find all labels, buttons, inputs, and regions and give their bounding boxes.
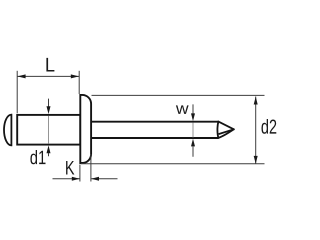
dimension K: left tail line <box>53 178 80 180</box>
dimension d1: lower arrow tail <box>48 153 50 156</box>
dimension d2: label <box>262 119 277 134</box>
dimension d2: dimension line <box>255 97 257 164</box>
mandrel head (blind-side bump) <box>4 115 11 146</box>
dimension w: upper arrowhead (down) <box>191 113 195 121</box>
dimension d2: extension line bottom <box>81 163 265 165</box>
dimension K: extension line left <box>79 165 81 182</box>
rivet body (tube) <box>17 115 80 145</box>
dimension w: line through stem <box>192 123 194 138</box>
dimension L: extension line right <box>78 71 80 94</box>
dimension K: left arrowhead (right-pointing) <box>72 177 80 181</box>
dimension d1: line through body <box>48 116 50 144</box>
dimension L: right arrowhead <box>71 74 79 78</box>
dimension L: dimension line <box>17 75 79 77</box>
dimension w: upper arrow tail <box>192 104 194 113</box>
mandrel stem top line <box>91 121 218 123</box>
dimension L: left arrowhead <box>17 74 25 78</box>
dimension L: label <box>46 58 54 72</box>
dimension K: right arrowhead (left-pointing) <box>91 177 99 181</box>
dimension d2: bottom arrowhead (down) <box>254 156 258 164</box>
dimension d1: upper arrow tail <box>48 99 50 107</box>
dimension d2: top arrowhead (up) <box>254 97 258 105</box>
mandrel stem bottom line <box>91 137 218 139</box>
flange head <box>80 95 91 163</box>
dimension K: right tail line <box>91 178 117 180</box>
dimension d1: lower arrowhead (up) <box>47 145 51 153</box>
dimension L: extension line left <box>16 71 18 114</box>
dimension d2: extension line top <box>92 94 265 96</box>
dimension w: lower arrowhead (up) <box>191 139 195 147</box>
mandrel tip (pointed end) <box>217 122 233 138</box>
dimension K: extension line right <box>90 154 92 182</box>
dimension d1: upper arrowhead (down) <box>47 106 51 114</box>
dimension w: label <box>176 105 189 114</box>
dimension w: lower arrow tail <box>192 146 194 157</box>
dimension d1: label <box>30 150 45 164</box>
dimension K: label <box>66 161 74 175</box>
